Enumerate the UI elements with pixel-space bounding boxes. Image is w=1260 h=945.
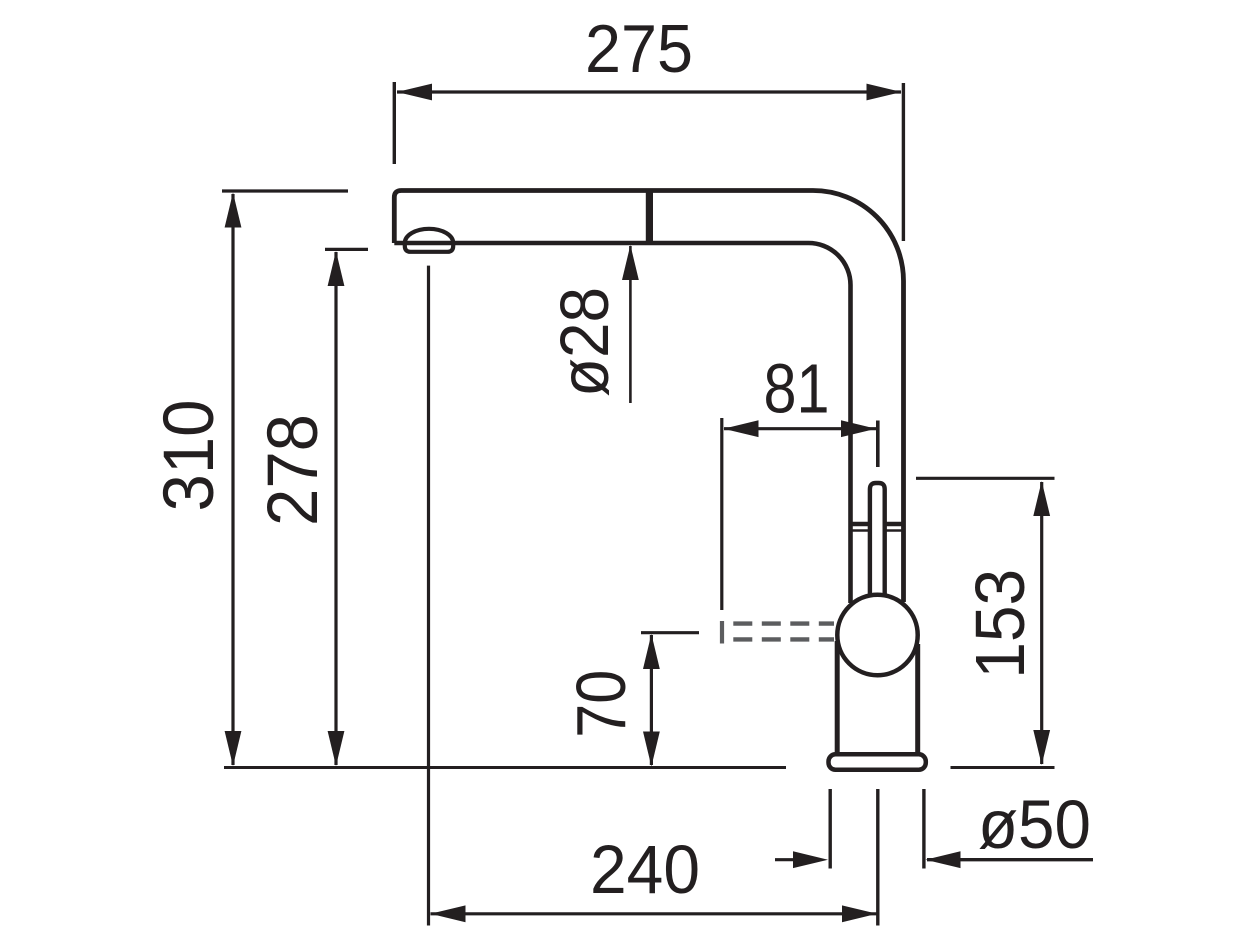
dim 153 dimension line: [1040, 482, 1043, 764]
dim 81 dimension line: [724, 427, 876, 430]
dim 275 left extension line: [393, 82, 396, 164]
dim 240 left arrowhead: [431, 905, 466, 922]
pipe joint line lower (thin): [849, 529, 906, 531]
dim 275 right arrowhead: [867, 84, 902, 101]
svg-text:275: 275: [585, 11, 693, 87]
dim o50 right extension line: [922, 789, 925, 869]
dim 278 top tick: [325, 248, 368, 251]
dim 70 top arrowhead: [643, 634, 660, 669]
body cylinder right wall: [915, 644, 920, 754]
dashed pull-out hose line start cap: [720, 621, 724, 644]
dim 240 dimension line: [431, 912, 878, 915]
svg-text:278: 278: [254, 414, 333, 526]
dim 310 top arrowhead: [225, 193, 242, 228]
dim 275 dimension line: [397, 90, 901, 93]
dim o50 right dimension line piece: [927, 858, 1093, 861]
dashed pull-out hose lower line: [733, 637, 834, 641]
dim 310 dimension line: [231, 194, 234, 765]
dim 275 left arrowhead: [397, 84, 432, 101]
dim 81 left extension line: [720, 418, 723, 610]
dim 81 right tick: [876, 421, 880, 468]
spout joint divider line: [646, 189, 653, 245]
svg-text:81: 81: [764, 350, 830, 428]
dim 278 bottom arrowhead: [328, 731, 345, 766]
dim 81 left arrowhead: [724, 420, 759, 437]
dim 278 top arrowhead: [328, 251, 345, 286]
handle lever stick (white filled, rounded top): [870, 483, 885, 604]
dim o50 left arrowhead (pointing right): [793, 851, 828, 868]
counter baseline left segment: [224, 766, 786, 769]
pipe joint line upper (thick): [849, 522, 906, 527]
dim 70 dimension line: [650, 635, 653, 765]
svg-text:ø50: ø50: [978, 786, 1091, 863]
base flange: [829, 754, 926, 770]
dim 275 right extension line: [902, 83, 905, 241]
dim 70 top tick: [641, 631, 699, 634]
dim 153 top arrowhead: [1033, 481, 1050, 516]
dim o50 middle extension line (body centerline): [876, 789, 879, 926]
aerator (dome above spout bottom edge + lip below, one closed outline): [405, 229, 453, 252]
svg-text:70: 70: [562, 670, 640, 738]
dim 310 bottom arrowhead: [225, 731, 242, 766]
svg-text:153: 153: [961, 569, 1039, 679]
body cylinder left wall: [835, 641, 840, 754]
dim 153 top extension line: [916, 477, 1055, 480]
counter baseline right segment / 153 bottom extension: [951, 766, 1055, 769]
dim o50 left extension line: [829, 789, 832, 869]
svg-text:ø28: ø28: [546, 287, 623, 397]
mixer ball joint circle: [837, 595, 917, 675]
dim o28 dimension line: [629, 246, 632, 403]
dim 278 dimension line: [334, 252, 337, 765]
dim o28 arrowhead: [622, 245, 639, 280]
svg-text:240: 240: [590, 831, 700, 908]
dim o50 right arrowhead (pointing left): [926, 851, 961, 868]
dim 240 left extension line (outlet centerline): [427, 266, 430, 926]
dashed pull-out hose upper line: [733, 621, 834, 625]
dim 240 right arrowhead: [842, 905, 877, 922]
dim 81 right arrowhead: [841, 420, 876, 437]
faucet spout outer contour (top edge and outer bend into right pipe wall): [394, 191, 903, 603]
dim 310 top tick: [222, 189, 348, 192]
dim 70 bottom arrowhead: [643, 732, 660, 767]
dim o50 left dimension line piece: [775, 858, 796, 861]
faucet spout bottom edge and inner bend into left pipe wall: [394, 243, 850, 603]
dim 153 bottom arrowhead: [1033, 730, 1050, 765]
svg-text:310: 310: [150, 400, 229, 512]
